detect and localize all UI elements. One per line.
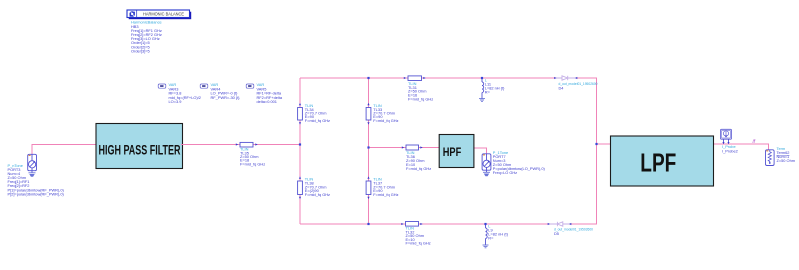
svg-text:Order[3]=5: Order[3]=5 xyxy=(131,48,150,53)
svg-text:F=mid_fq GHz: F=mid_fq GHz xyxy=(406,241,431,246)
terminal Term62 xyxy=(766,150,775,166)
HB parameter values xyxy=(131,20,162,54)
wire HPF to PORT7 xyxy=(473,148,487,154)
svg-text:LPF: LPF xyxy=(640,148,676,178)
svg-text:R=: R= xyxy=(485,90,491,95)
wire IF summing node (vertical right) xyxy=(596,78,598,224)
port source P_1Tone PORT7 xyxy=(482,154,491,172)
svg-text:RF_PWR=-30 {t}: RF_PWR=-30 {t} xyxy=(211,95,241,100)
tline TL31 xyxy=(404,76,433,101)
svg-text:F=mid_fq GHz: F=mid_fq GHz xyxy=(305,118,330,123)
svg-text:HIGH PASS FILTER: HIGH PASS FILTER xyxy=(99,142,181,157)
wire bottom rail xyxy=(300,223,550,225)
svg-text:Z=50 Ohm: Z=50 Ohm xyxy=(777,158,796,163)
tline TL34 xyxy=(298,103,330,125)
svg-text:F=mid_fq GHz: F=mid_fq GHz xyxy=(406,166,431,171)
ground of L11 xyxy=(479,99,485,102)
svg-text:delta=0.001: delta=0.001 xyxy=(257,99,277,104)
wire branch line 1 (vertical) xyxy=(299,78,301,224)
wire HIGH PASS FILTER to node A (through TL35) xyxy=(181,144,300,146)
inductor L9 xyxy=(486,223,509,245)
junction branch line 2 / LO wire xyxy=(367,146,369,148)
svg-text:P[2]=polar(dbmtow(RF_PWR),0): P[2]=polar(dbmtow(RF_PWR),0) xyxy=(8,192,65,197)
block HPF xyxy=(439,135,474,168)
svg-text:D4: D4 xyxy=(559,85,565,90)
simulation controller U_HB HARMONIC BALANCE xyxy=(127,10,191,19)
svg-text:d_out_model01_19502600: d_out_model01_19502600 xyxy=(559,81,599,86)
tline TL38 xyxy=(298,176,330,199)
wire LO path: branch line 2 to HPF xyxy=(369,147,440,149)
wire LPF input xyxy=(597,143,611,145)
ground of PORT7 xyxy=(483,172,490,176)
PORT7 parameter values xyxy=(493,150,546,175)
node label if xyxy=(753,139,756,145)
diode D5 xyxy=(548,222,594,236)
diode D4 xyxy=(554,76,598,91)
junction L11 / top rail xyxy=(481,77,483,79)
svg-text:d_out_model01_19502600: d_out_model01_19502600 xyxy=(554,227,594,232)
tline TL36 xyxy=(402,145,431,171)
variable block VAR5 xyxy=(246,82,283,104)
junction IF node / LPF input xyxy=(595,143,597,145)
PORT3 parameter values xyxy=(8,163,65,196)
block HIGH PASS FILTER xyxy=(96,124,183,169)
wire PORT3 to HIGH PASS FILTER xyxy=(32,145,96,155)
inductor L11 xyxy=(482,78,505,99)
svg-text:HARMONIC BALANCE: HARMONIC BALANCE xyxy=(143,12,184,17)
current probe I_Probe2 xyxy=(721,129,738,153)
svg-text:F=mid_fq GHz: F=mid_fq GHz xyxy=(305,192,330,197)
svg-text:LO=3.9: LO=3.9 xyxy=(169,99,182,104)
junction branch line 2 / bottom rail xyxy=(367,223,369,225)
wire bottom rail after diode D5 xyxy=(571,223,598,225)
junction node A (TL35 / branch line 1) xyxy=(299,143,301,145)
svg-text:F=mid_fq GHz: F=mid_fq GHz xyxy=(240,161,265,166)
svg-text:HPF: HPF xyxy=(443,145,462,159)
ground of L9 xyxy=(483,245,489,248)
wire branch line 2 (vertical) xyxy=(368,78,370,224)
svg-text:F=mid_fq GHz: F=mid_fq GHz xyxy=(408,96,433,101)
variable block VAR3 xyxy=(158,82,201,104)
svg-text:R=: R= xyxy=(488,235,494,240)
wire top rail after diode D4 xyxy=(577,77,598,79)
wire top rail xyxy=(300,77,556,79)
svg-text:I_Probe2: I_Probe2 xyxy=(722,148,738,153)
junction L9 / bottom rail xyxy=(484,223,486,225)
ground of PORT3 xyxy=(29,173,36,177)
tline TL35 xyxy=(236,142,265,166)
svg-text:Freq=LO GHz: Freq=LO GHz xyxy=(493,170,517,175)
tline TL37 xyxy=(366,176,398,199)
svg-text:F=mid_fq GHz: F=mid_fq GHz xyxy=(373,192,398,197)
Term62 parameter values xyxy=(777,146,796,163)
tline TL32 xyxy=(401,222,430,246)
svg-text:F=mid_fq GHz: F=mid_fq GHz xyxy=(373,118,398,123)
junction branch line 2 / top rail xyxy=(367,77,369,79)
block LPF xyxy=(611,136,714,186)
svg-text:D5: D5 xyxy=(554,231,559,236)
wire LPF output to Term xyxy=(714,144,769,150)
port source P_nTone PORT3 xyxy=(28,154,37,172)
tline TL33 xyxy=(366,103,398,125)
variable block VAR4 xyxy=(200,82,240,100)
